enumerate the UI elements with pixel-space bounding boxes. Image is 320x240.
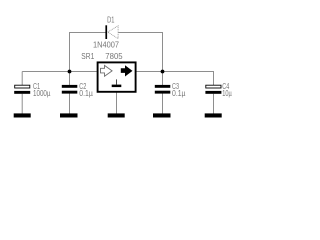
wire C1 bottom lead	[21, 94, 23, 114]
wire C3 top lead	[162, 72, 164, 86]
svg-text:SR1: SR1	[81, 51, 94, 61]
diode D1	[105, 25, 118, 39]
capacitor C3	[155, 85, 171, 94]
wire C4 bottom lead	[213, 94, 215, 114]
node input junction	[68, 70, 72, 74]
regulator output arrow (solid)	[121, 65, 133, 76]
regulator common pin symbol	[112, 79, 122, 87]
svg-text:7805: 7805	[105, 51, 122, 61]
svg-text:1N4007: 1N4007	[93, 40, 119, 50]
ground C4	[205, 113, 222, 117]
svg-text:0.1µ: 0.1µ	[79, 88, 93, 98]
wire regulator common lead	[116, 93, 118, 114]
capacitor C1	[14, 85, 30, 94]
wire C2 top lead	[69, 72, 71, 86]
wire diode branch top right horizontal	[118, 32, 163, 34]
svg-text:0.1µ: 0.1µ	[172, 88, 186, 98]
wire C1 top lead	[21, 72, 23, 86]
ground regulator	[108, 113, 125, 117]
svg-text:10µ: 10µ	[222, 88, 232, 98]
wire output rail	[137, 72, 214, 86]
wire input rail	[22, 71, 97, 73]
ground C2	[60, 113, 78, 117]
wire C2 bottom lead	[69, 94, 71, 114]
wire diode branch top left horizontal	[69, 32, 106, 34]
capacitor C2	[62, 85, 78, 94]
wire C3 bottom lead	[162, 94, 164, 114]
regulator input arrow (hollow)	[101, 65, 113, 76]
svg-text:D1: D1	[107, 14, 114, 24]
wire diode branch right vertical	[162, 32, 164, 72]
capacitor C4	[205, 85, 221, 94]
op-amp U1 regulator box SR1	[98, 62, 136, 91]
wire diode branch left vertical	[69, 32, 71, 72]
node output junction	[161, 70, 165, 74]
svg-text:1000µ: 1000µ	[33, 88, 51, 98]
ground C3	[153, 113, 171, 117]
ground C1	[14, 113, 31, 117]
